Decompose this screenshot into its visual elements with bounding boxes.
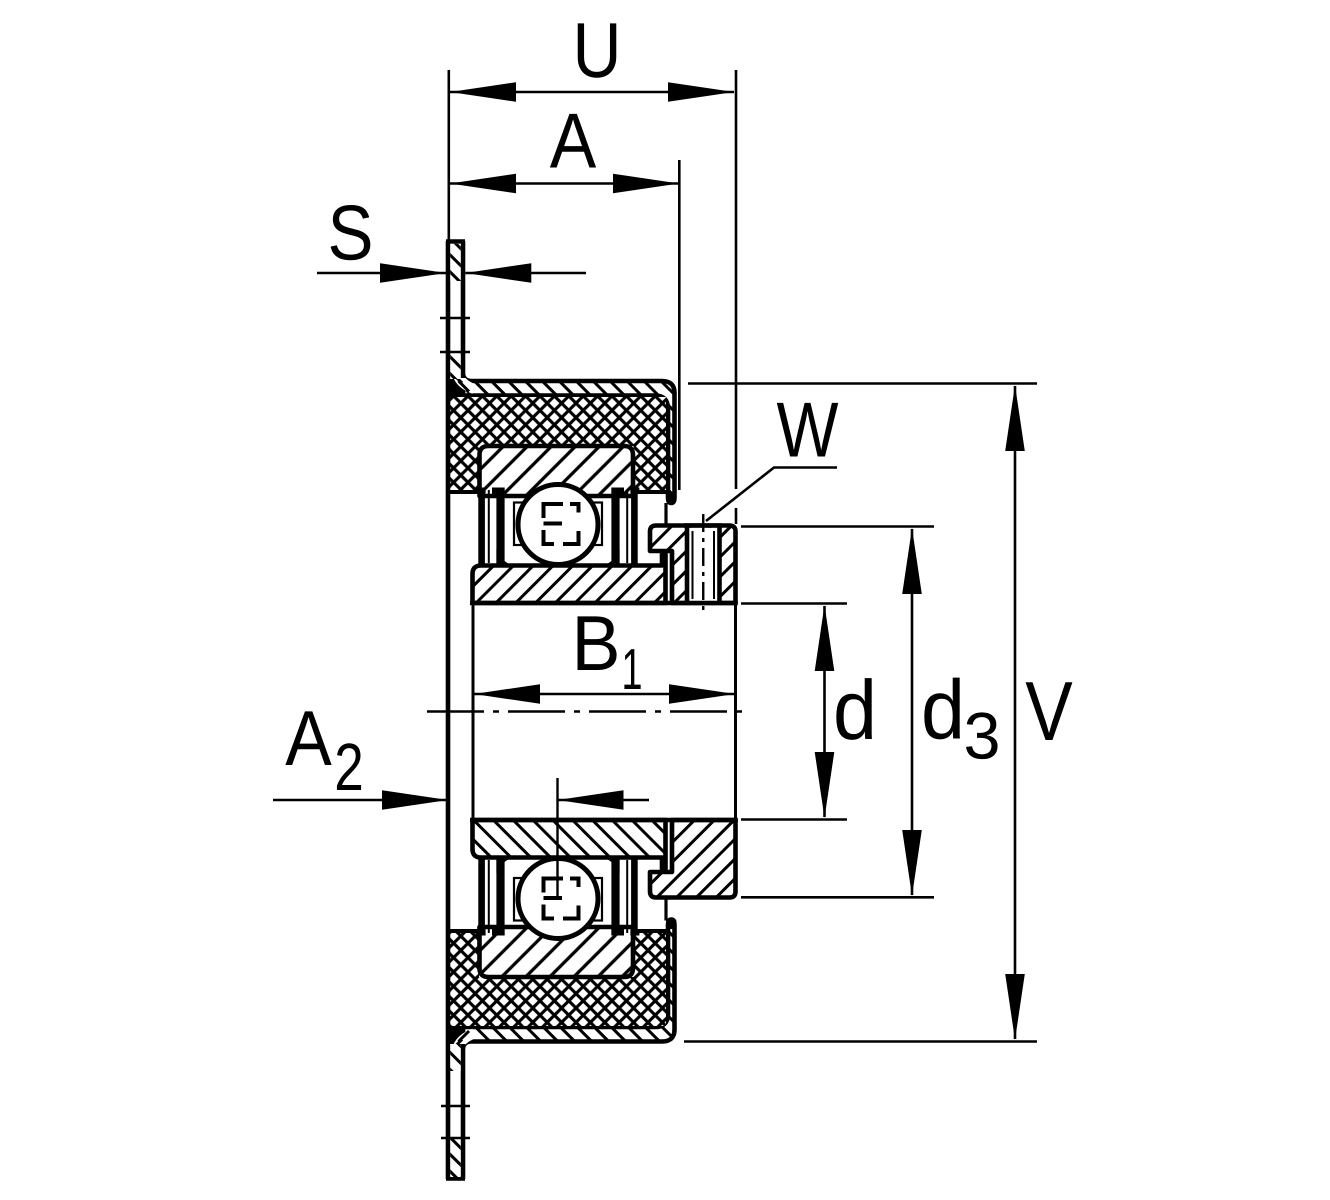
flange sheet cap top band xyxy=(463,375,675,504)
dimension S xyxy=(317,272,586,275)
dimension A xyxy=(678,160,681,490)
seal top right xyxy=(631,488,638,566)
cap top strip tip xyxy=(666,493,677,505)
rubber ring bottom top edges xyxy=(447,929,480,933)
dimension A2 xyxy=(273,799,649,802)
ball cage top xyxy=(514,503,602,546)
rubber seat ring bottom (crosshatch) xyxy=(450,931,666,1026)
dimension B1 xyxy=(474,693,735,696)
dashed section square in bottom ball xyxy=(544,879,579,919)
seal bottom right xyxy=(631,858,638,936)
seal top left xyxy=(478,488,485,566)
bearing inner ring top band xyxy=(473,554,666,603)
centerline xyxy=(427,710,746,713)
bore silhouette left xyxy=(472,603,475,820)
dashed section square in top ball xyxy=(544,504,579,544)
bore edge bottom xyxy=(470,818,738,823)
rubber ring top bottom edges xyxy=(447,490,480,494)
cap bottom strip tip xyxy=(666,918,677,930)
dimension W leader xyxy=(706,468,837,522)
inner ring collar bottom xyxy=(650,820,736,898)
dimension U xyxy=(447,70,450,240)
A2 extension line xyxy=(556,778,558,899)
housing bore silhouette bottom xyxy=(664,897,667,921)
inner ring collar top (with set screw W) xyxy=(650,526,736,604)
flange sheet cap bottom band corner fill xyxy=(446,1024,462,1044)
flange sheet cap top band corner fill xyxy=(446,379,462,399)
cap bottom bend channel xyxy=(456,1034,474,1057)
set screw axis xyxy=(702,514,704,613)
plate break ticks xyxy=(440,317,470,320)
cap top bend channel xyxy=(456,366,474,389)
bore silhouette right xyxy=(734,603,737,820)
seal bottom left xyxy=(478,858,485,936)
flange sheet cap bottom band xyxy=(463,920,675,1049)
bearing outer ring top xyxy=(480,446,634,496)
ball cage bottom xyxy=(514,878,602,921)
dimension d3 xyxy=(741,525,934,528)
bearing inner ring bottom band xyxy=(473,820,666,869)
flange plate xyxy=(446,241,451,1179)
bearing outer ring bottom xyxy=(480,927,634,977)
dimension d xyxy=(741,602,847,605)
dimension V xyxy=(688,382,1037,385)
rubber seat ring top (crosshatch) xyxy=(450,397,666,492)
housing bore silhouette top xyxy=(664,503,667,526)
ball top xyxy=(518,485,598,565)
set screw W xyxy=(687,528,720,601)
bore edge top xyxy=(470,601,738,606)
ball bottom xyxy=(518,859,598,939)
